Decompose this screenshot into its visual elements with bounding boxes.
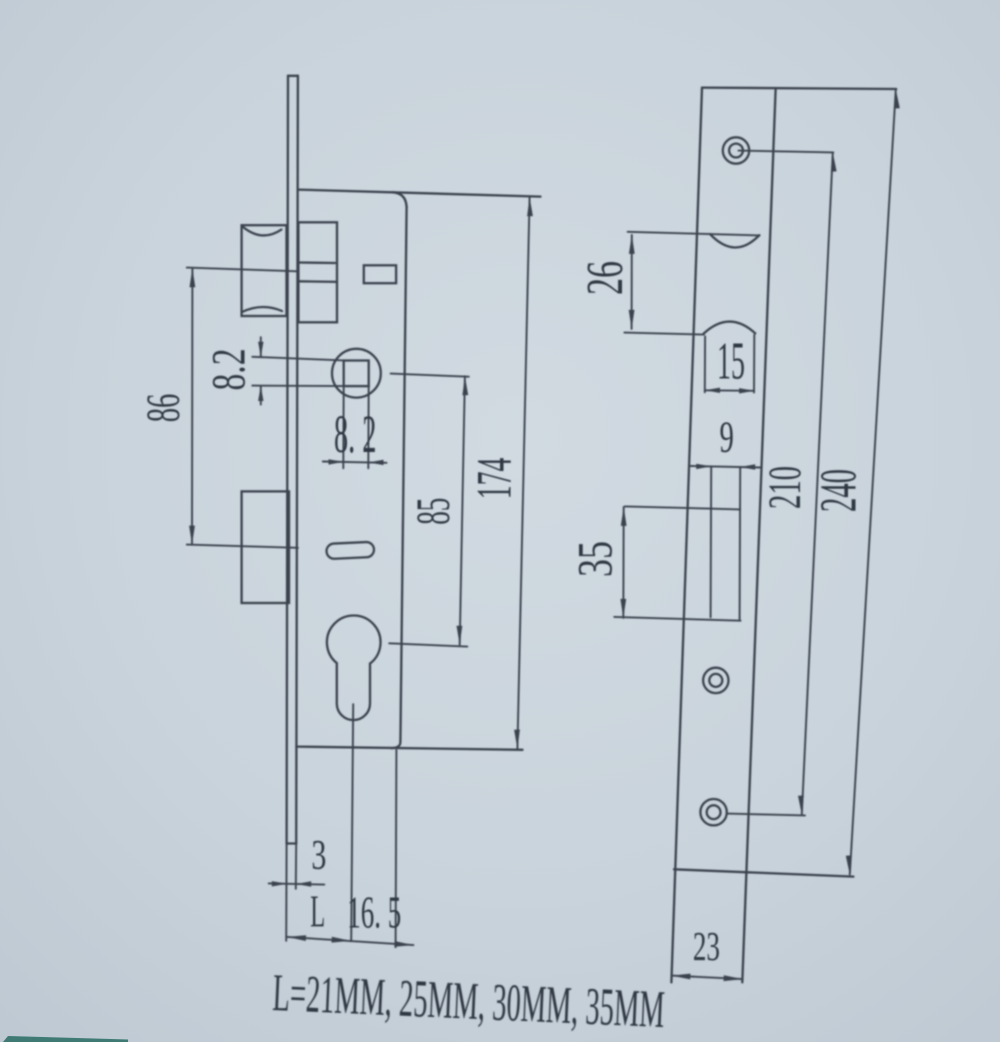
svg-text:9: 9 bbox=[719, 414, 733, 463]
dimension 85 line with arrows bbox=[457, 376, 469, 645]
dimension 86 line with arrows bbox=[189, 268, 195, 544]
square hole extension lines down bbox=[343, 386, 368, 468]
follower hub circle bbox=[332, 349, 381, 398]
latch cutout top edge + 26 extension bbox=[628, 232, 760, 236]
euro profile keyhole bbox=[327, 616, 381, 721]
faceplate front: left edge with extension bbox=[671, 88, 702, 983]
dimension 85 extension lines bbox=[389, 374, 469, 647]
dimension 15 extension lines bbox=[705, 335, 755, 393]
svg-text:15: 15 bbox=[717, 332, 745, 391]
faceplate bar (side view, 3mm thick) bbox=[287, 76, 298, 844]
square spindle hole 8.2 bbox=[344, 361, 369, 387]
latch cutout concave arc top bbox=[710, 234, 759, 247]
svg-text:8.2: 8.2 bbox=[202, 349, 255, 391]
connector bottom hole to 210 line bbox=[727, 814, 805, 816]
dimension 23 line with arrows bbox=[671, 974, 742, 982]
dimension 210 line with arrows bbox=[798, 153, 837, 815]
svg-text:174: 174 bbox=[466, 458, 522, 500]
bottom screw hole bbox=[700, 799, 726, 825]
body right edge extension for 16.5 bbox=[395, 750, 398, 947]
keyhole center line bbox=[351, 704, 353, 941]
teal table edge bottom-left bbox=[3, 1036, 128, 1042]
middle screw hole bbox=[703, 668, 728, 693]
deadbolt cutout bottom edge + 35 extension bbox=[614, 617, 740, 621]
faceplate front: bottom edge + 240 extension bbox=[674, 869, 853, 876]
oval screw slot bbox=[326, 542, 374, 559]
svg-text:240: 240 bbox=[811, 469, 868, 512]
stop snib rectangle bbox=[364, 265, 396, 283]
dimension 8.2 left line with outside arrows bbox=[258, 337, 263, 404]
latch bolt tail inside case bbox=[298, 222, 337, 322]
svg-text:L: L bbox=[310, 887, 325, 937]
dimension 8.2 bottom line with outside arrows bbox=[323, 459, 387, 465]
lock body case outline bbox=[296, 190, 540, 750]
latch cutout bottom edge + 26 extension bbox=[624, 333, 704, 335]
dimension 26 line with arrows bbox=[629, 235, 635, 329]
svg-text:23: 23 bbox=[693, 923, 720, 969]
svg-text:26: 26 bbox=[576, 261, 634, 295]
svg-text:3: 3 bbox=[311, 831, 326, 878]
dimension 15 line with arrows bbox=[705, 388, 754, 394]
svg-text:85: 85 bbox=[407, 498, 460, 525]
dimension 35 line with arrows bbox=[620, 507, 626, 618]
svg-text:210: 210 bbox=[759, 466, 811, 509]
faceplate front: top edge + 240 extension bbox=[702, 88, 896, 89]
deadbolt cutout top edge + 35 extension bbox=[625, 506, 740, 509]
latch roller hump arc bbox=[704, 322, 756, 334]
dimension 240 line with arrows bbox=[846, 89, 900, 874]
faceplate bar extension lines (for 3 and L dims) bbox=[286, 844, 296, 941]
latch roller bolt (protruding left) bbox=[242, 225, 287, 316]
dimension 9 extension lines through plate bbox=[711, 466, 741, 619]
connector top hole to 210 line bbox=[739, 151, 834, 153]
svg-text:35: 35 bbox=[568, 541, 623, 577]
dimension 174 line with arrows bbox=[514, 197, 533, 748]
dimension L and 16.5 bottom line with arrows bbox=[287, 935, 413, 947]
svg-text:86: 86 bbox=[136, 394, 189, 423]
dimension 3 line with outside arrows bbox=[269, 881, 325, 887]
svg-text:8. 2: 8. 2 bbox=[334, 406, 377, 465]
dimension 8.2 left extension lines bbox=[252, 357, 368, 386]
top screw hole bbox=[723, 137, 749, 163]
faceplate front: right edge with extension bbox=[742, 90, 775, 983]
svg-text:16. 5: 16. 5 bbox=[347, 889, 401, 939]
dimension 9 line with outside arrows bbox=[691, 464, 762, 470]
deadbolt (protruding left) bbox=[242, 491, 289, 603]
dimension 86 extension lines bbox=[187, 268, 298, 548]
